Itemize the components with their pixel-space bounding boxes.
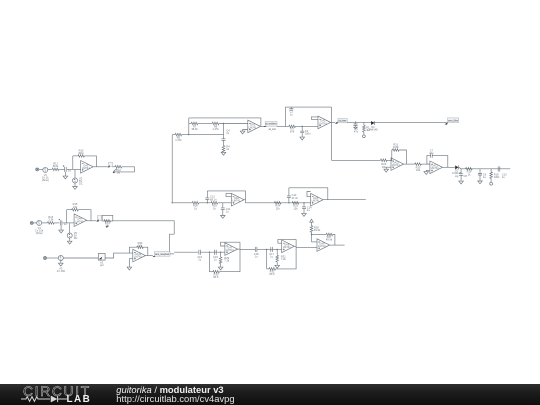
labels layer [35,110,507,279]
ground [59,263,64,266]
op-amp OA7 [225,243,238,256]
wire output D2 [294,245,296,247]
wire output C2 [323,199,366,201]
op-amp OA6 [231,193,244,206]
capacitor plates [287,196,291,198]
ground circle [363,135,366,138]
wire [199,202,211,204]
voltage source V3 [58,256,63,261]
wire [276,262,278,265]
resistor zigzag [310,226,313,233]
wire V5 vertical [69,223,71,233]
wire [63,222,75,224]
node dot [266,249,267,250]
wire [201,251,225,253]
resistor R5 [175,133,182,136]
capacitor plates [289,109,293,111]
resistor R16 [48,222,55,225]
wire vertical from top block [171,135,173,203]
capacitor C12 branch up [206,199,208,202]
wire [311,232,313,242]
wire feedback top C1 [207,191,245,203]
wire [33,222,36,224]
ground circle [490,182,493,185]
node dot [311,234,312,235]
wire [114,167,135,172]
wire box bottom [267,268,269,270]
wire row C line [172,202,192,204]
capacitor plates [221,208,225,210]
capacitor C15 (series) [215,250,217,255]
wire output [87,220,97,222]
wire box bottom [209,271,212,273]
ground [240,131,245,134]
wire [57,396,59,402]
ground [221,216,226,219]
wire minus loop top D1 [221,242,240,246]
wire V2 vertical [74,170,76,178]
resistor R3 [289,125,296,128]
wire feedback left vertical [66,210,68,223]
resistor R4 (vertical) [222,146,225,153]
resistor R27 (feedback) [326,233,333,236]
wire [182,134,224,136]
wire [363,132,365,135]
wire [219,123,248,125]
wire minus loop [226,194,231,197]
wire output [93,166,107,168]
wire output vertical long [331,107,333,160]
wire [206,191,208,198]
wire minus loop top D2 [278,239,296,243]
wire [421,163,430,165]
wire output D1 [238,248,241,250]
resistor R20 [415,163,422,166]
wire [399,150,406,164]
wire feedback top C2 [289,188,328,200]
wire feedback D3 [312,234,327,236]
ground [73,187,78,190]
ground [302,213,307,216]
node flag out2 [97,216,101,221]
resistor zigzag [104,220,111,223]
wire [223,140,225,145]
wire [276,239,297,269]
node dot [172,202,173,203]
wire [143,247,148,255]
resistor R7 [191,122,198,125]
wire [73,155,78,157]
wire row D input [174,251,198,253]
flag arrow [107,165,110,167]
diode D2 [455,165,458,169]
ground [384,169,389,172]
logo diode triangle [51,396,57,402]
op-amp OA10 [133,249,146,262]
flag arrow [113,171,116,173]
op-amp OA5 [311,193,324,206]
ground under source [60,261,62,264]
wire [67,209,72,211]
wire long to right [113,221,174,234]
resistor zigzag [276,255,279,262]
flag arrow [96,219,99,221]
wire [220,264,222,267]
capacitor C11 to ground [222,203,224,208]
resistor R21 (feedback) [393,149,400,152]
op-amp OA4 [74,214,87,227]
wire long output [347,121,447,123]
resistor R22 [381,159,388,162]
op-amp OA9 [317,239,330,252]
ground at plus input [243,130,248,131]
input terminal T2 [30,221,33,224]
wire [219,242,240,272]
ground at plus [129,259,132,267]
resistor R33 (feedback) [137,246,144,249]
capacitor plates [205,198,209,200]
svg-text:LAB: LAB [67,394,92,405]
op-amp OA11 [391,158,404,171]
resistor R18 (vertical to ground circle) [490,169,492,172]
wire [458,165,460,169]
ground [63,176,68,179]
wire [198,123,212,125]
wire [333,235,335,246]
wire minus loop [311,117,318,119]
wire [479,175,481,181]
wire feedback E1 [129,247,136,253]
wire [459,167,511,169]
node dot [277,249,278,250]
resistor R10 (feedback) [78,155,85,158]
wire [50,396,52,402]
resistor R30 (box bottom) [213,270,220,273]
resistor R15 (feedback) [72,208,79,211]
input terminal T1 [36,168,39,171]
wire low line [173,134,176,136]
ground [127,267,132,270]
wire [374,121,376,125]
node dot [223,123,224,124]
capacitor C4 [222,139,226,141]
node flag vers_recepteur [153,255,156,257]
wire [303,208,305,213]
wire feedback input vertical [188,118,190,135]
R11 labels [0,0,1,1]
op-amp OA8 [282,240,295,253]
capacitor C9 to ground [479,169,481,174]
wire minus loop [307,192,311,197]
potentiometer R14 [102,215,113,221]
flag box [338,119,347,123]
wire [245,202,310,204]
ground [218,267,223,270]
svg-text:http://circuitlab.com/cv4avpg: http://circuitlab.com/cv4avpg [116,393,234,404]
wire [490,178,492,182]
capacitor C3 to ground [301,126,303,131]
wire mid line [189,123,191,125]
ground [221,152,226,155]
wire feedback [391,150,394,161]
voltage source V2 [73,178,78,183]
node dot [303,202,304,203]
input terminal T3 [44,257,47,260]
capacitor C5 (series electrolytic) [63,165,66,172]
wire [277,125,289,127]
capacitor CP1 to ground [355,121,357,123]
ground [74,183,76,186]
resistor R31 (vertical) [276,249,278,255]
wire box left vertical D2 [266,249,268,269]
wire [58,398,67,400]
ground [69,238,71,241]
ground [300,137,305,140]
capacitor C2 stub [290,107,292,109]
node dot [207,202,208,203]
ground [59,230,64,233]
wire output C1 [244,199,245,201]
wire minus [312,241,318,243]
wire [331,121,336,123]
ground at plus [386,167,391,169]
resistor R11 [52,168,59,171]
wire [84,156,96,167]
resistor R23 [292,202,299,205]
op-amp OA1 [248,120,261,133]
ground at plus [426,170,430,171]
ground [275,265,280,268]
wire [21,397,50,402]
wire row B input [332,159,381,161]
capacitor C8 to ground [460,169,462,174]
resistor zigzag [363,125,366,132]
wire [63,257,98,259]
wire cap branch vertical [223,124,225,139]
resistor R24 [274,202,281,205]
wire feedback left vertical [72,156,74,170]
op-amp OA3 [81,161,94,174]
node dot [209,252,210,253]
resistor R25 [211,202,218,205]
node flag out_mod [264,125,267,127]
capacitor C10 (series on line) [498,166,500,171]
capacitor C6 (series) [59,219,62,226]
capacitor plates [302,207,306,209]
wire [170,253,174,255]
wire [288,188,290,196]
node flag out1 [109,162,113,166]
ground [67,241,72,244]
wire feedback [427,156,431,165]
capacitor C14 to ground [303,203,305,207]
node dot [288,202,289,203]
wire [295,125,318,127]
node dot [220,252,221,253]
ground [424,172,429,175]
resistor R28 (vertical) [311,222,313,226]
op-amp OA12 [430,161,443,174]
wire upper feedback [286,107,332,126]
footer bar [0,384,540,405]
flag box [154,252,170,257]
wire [296,247,317,249]
switch box K1 [98,254,105,261]
node flag vers_filtre [448,118,459,123]
wire jog [170,234,175,253]
wire output E1 [145,255,152,257]
voltage source V1 [43,167,48,172]
wire [105,253,133,258]
node dot [188,134,189,135]
voltage source V5 [67,233,72,238]
wire [218,202,232,204]
wire [432,156,448,168]
potentiometer R12 [115,166,122,169]
ground [478,181,483,184]
wire [47,257,59,259]
resistor R6 [212,122,219,125]
ground [64,172,66,176]
wire [42,222,48,224]
capacitor C13 branch up [288,197,290,202]
wire output [404,163,415,165]
capacitor C16 (series) [199,250,201,255]
wire output [260,125,265,127]
logo resistor-diode glyph [21,396,67,402]
resistor R19 [466,168,473,171]
wire [54,222,59,224]
ground [60,225,62,230]
wire [112,166,115,168]
capacitor plates [459,174,463,176]
flag arrow [445,122,448,125]
capacitor plates [300,131,304,133]
wire [387,159,391,162]
flag arrow [105,226,108,228]
resistor R1 (vertical) [363,122,365,125]
resistor zigzag [490,172,493,179]
node dot [302,126,303,127]
node flag out_b [335,121,338,123]
wire [240,248,255,250]
resistor R29 (vertical) [220,252,222,257]
flag box [265,122,277,127]
wire [78,210,91,221]
flag arrow [99,257,102,260]
wire output D3 [330,244,345,246]
wire output [443,166,455,168]
wire [222,209,224,215]
ground [223,151,225,153]
ground [459,181,464,184]
wire box left vertical D1 [208,252,210,272]
capacitor plates [478,174,482,176]
resistor R26 [192,202,199,205]
capacitor C18 (series) [255,247,257,252]
wire [39,168,43,170]
wire [301,133,303,137]
resistor R32 (box bottom) [269,268,276,271]
wire feedback top [189,118,261,127]
resistor zigzag [219,257,222,264]
capacitor C17 (series) [271,247,273,252]
wire [48,168,52,170]
wire [59,168,65,170]
capacitor C7 (feedback series) [431,153,433,157]
wire [460,175,462,181]
wire [67,168,81,170]
wire [257,248,282,250]
op-amp OA2 [318,116,331,129]
port arrow up [310,219,314,222]
diode D1 [371,121,374,125]
voltage source V4 [37,220,42,225]
wire [113,169,117,172]
